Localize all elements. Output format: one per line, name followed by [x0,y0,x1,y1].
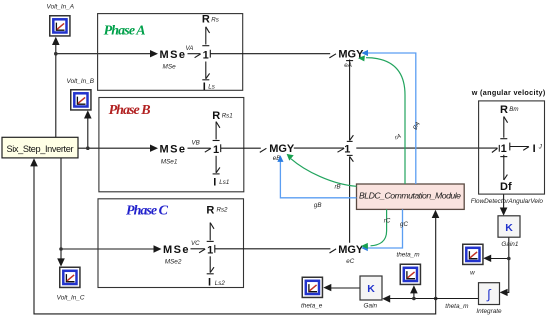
svg-text:FlowDetectorAngularVelo: FlowDetectorAngularVelo [471,198,544,205]
svg-text:MSe: MSe [163,244,189,256]
svg-text:Rs: Rs [211,17,219,24]
svg-text:Integrate: Integrate [476,308,502,315]
svg-text:Six_Step_Inverter: Six_Step_Inverter [7,144,74,154]
svg-text:VB: VB [192,139,200,146]
svg-text:eC: eC [346,258,354,265]
svg-text:Rs2: Rs2 [217,207,229,214]
svg-text:Phase A: Phase A [104,23,146,38]
svg-text:BLDC_Commutation_Module: BLDC_Commutation_Module [359,190,461,200]
svg-text:R: R [500,104,508,116]
svg-text:1: 1 [213,144,219,156]
svg-text:I: I [533,143,536,155]
svg-text:w (angular velocity): w (angular velocity) [471,88,546,97]
svg-text:Df: Df [500,181,512,193]
svg-text:Ls2: Ls2 [215,280,226,287]
svg-text:Ls1: Ls1 [219,179,229,186]
svg-text:Volt_In_A: Volt_In_A [47,4,74,11]
svg-text:theta_m: theta_m [445,303,469,310]
svg-text:MSe2: MSe2 [165,258,182,265]
svg-text:Phase B: Phase B [109,103,151,118]
svg-text:gB: gB [314,202,322,209]
svg-text:VC: VC [191,240,200,247]
svg-text:K: K [367,283,375,295]
svg-text:Volt_In_C: Volt_In_C [57,294,85,301]
svg-text:I: I [203,81,206,93]
svg-text:R: R [212,110,220,122]
svg-text:gC: gC [400,221,408,228]
svg-text:MSe: MSe [160,144,186,156]
svg-text:I: I [208,277,211,289]
svg-text:Ls: Ls [208,83,215,90]
svg-text:MGY: MGY [269,143,295,155]
svg-text:I: I [213,176,216,188]
svg-text:theta_m: theta_m [396,252,420,259]
svg-text:MSe: MSe [163,64,177,71]
svg-text:Gain1: Gain1 [501,241,518,248]
svg-text:1: 1 [344,143,350,155]
svg-text:w: w [470,269,475,276]
svg-text:VA: VA [186,45,194,52]
svg-text:eA: eA [344,62,352,69]
svg-text:Phase C: Phase C [126,204,169,219]
svg-text:1: 1 [203,49,209,61]
svg-text:MGY: MGY [338,244,364,256]
svg-text:rB: rB [335,183,341,190]
svg-text:Gain: Gain [364,303,378,310]
svg-text:theta_e: theta_e [301,302,323,309]
svg-text:MSe1: MSe1 [161,158,178,165]
svg-text:Bm: Bm [509,106,518,113]
svg-text:R: R [202,14,210,26]
svg-text:1: 1 [501,143,507,155]
svg-text:R: R [206,205,214,217]
svg-text:Rs1: Rs1 [222,113,233,120]
svg-text:1: 1 [207,244,213,256]
svg-text:rC: rC [384,218,391,225]
svg-text:Volt_In_B: Volt_In_B [67,78,95,85]
svg-text:MSe: MSe [160,49,186,61]
svg-text:K: K [505,222,513,234]
